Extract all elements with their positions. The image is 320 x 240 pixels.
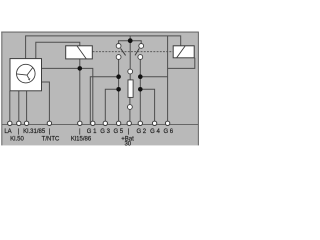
K1 diagonal — [77, 46, 86, 59]
wire: resistor bottom to lower circle to +Bat pin — [129, 97, 131, 123]
contact S1 lower-left fixed contact — [116, 55, 121, 60]
timer clock symbol circle — [17, 64, 36, 83]
wire: upper-right branch from D5 to G6 column — [140, 76, 167, 78]
junction dot D3 — [116, 74, 121, 79]
pin Kl15/86 — [78, 121, 82, 125]
svg-text:Kl.50: Kl.50 — [10, 136, 24, 142]
junction dot D6 — [138, 87, 143, 92]
svg-text:G 5: G 5 — [113, 129, 123, 135]
pin header line (inner box bottom edge) — [2, 124, 199, 126]
resistor bottom terminal circle — [127, 105, 132, 110]
clock hand upper-right — [27, 67, 33, 75]
pin G3 — [103, 121, 107, 125]
pin G5 — [116, 121, 120, 125]
wire: upper-left branch from D3 to bus — [90, 77, 118, 124]
contact blade left — [121, 48, 126, 55]
contact S1 upper-left fixed contact — [116, 44, 121, 49]
wire: timer right edge to D1 to corner, down to pin G1 — [42, 68, 93, 123]
wire: pin Kl.50 up to timer box — [18, 91, 20, 124]
dashed mechanical linkage line — [93, 51, 174, 53]
wire: timer right edge to T/NTC pin — [42, 82, 50, 123]
clock hand left — [17, 74, 27, 75]
wire: lower-left branch from D4 to pin G3 — [105, 89, 118, 123]
svg-text:30: 30 — [124, 142, 131, 148]
wire: center column from D2 down to resistor circle — [129, 41, 131, 72]
pin Kl.31/85 — [24, 121, 28, 125]
pin T/NTC — [47, 121, 51, 125]
pin +Bat/30 — [127, 121, 131, 125]
contact S1 lower-right fixed contact — [138, 55, 143, 60]
wire: contact top bar with bends to upper contacts — [119, 41, 142, 46]
junction dot D2 (contact common) — [128, 38, 133, 43]
resistor top terminal circle — [128, 69, 133, 74]
contact blade right — [135, 48, 139, 55]
housing border left — [1, 32, 3, 146]
svg-text:Kl.31/85: Kl.31/85 — [23, 129, 46, 135]
relay coil K2 (right box with diagonal) — [173, 46, 194, 58]
junction dot D1 — [78, 66, 83, 71]
housing border right — [197, 32, 199, 146]
wire: coil K1 bottom to junction D1 down to pin Kl15/86 — [79, 59, 81, 123]
junction dot D5 — [138, 74, 143, 79]
svg-text:T/NTC: T/NTC — [42, 136, 60, 142]
clock arrow lower-right — [27, 75, 29, 78]
pin G2 — [138, 121, 142, 125]
resistor R1 (series resistor) — [128, 80, 133, 98]
pin G1 — [91, 121, 95, 125]
svg-text:G 6: G 6 — [163, 129, 173, 135]
svg-text:G 3: G 3 — [100, 129, 110, 135]
timer control unit box U1 — [10, 59, 42, 91]
contact S1 upper-right fixed contact — [139, 44, 144, 49]
relay coil K1 (left box with diagonal) — [66, 46, 93, 59]
svg-text:G 1: G 1 — [87, 129, 97, 135]
wire: right contact column down to pin G2 — [139, 59, 141, 123]
wire: box2 bottom loop to G6 column — [168, 58, 195, 69]
pin G6 — [165, 121, 169, 125]
wire: pin Kl.31/85 up to timer box — [26, 91, 28, 124]
svg-text:G 2: G 2 — [136, 129, 146, 135]
wire: center column circle to resistor top — [129, 72, 131, 80]
wire: rail B (timer to relay coil K1) — [36, 42, 80, 58]
K2 diagonal — [177, 46, 186, 58]
svg-text:LA: LA — [4, 129, 11, 135]
wire: contact common stub from rail A to dot D2 — [129, 36, 131, 41]
svg-text:Kl15/86: Kl15/86 — [71, 136, 92, 142]
wire: lower-right branch from D6 to pin G4 — [140, 89, 154, 123]
housing border top — [1, 31, 198, 33]
pin G4 — [152, 121, 156, 125]
wire: left contact column down to pin G5 — [118, 59, 120, 123]
relay housing panel — [2, 32, 199, 145]
svg-text:G 4: G 4 — [150, 129, 160, 135]
wire: rail A drop at x=168 down to pin G6 — [167, 36, 169, 123]
wire: rail A (top supply rail) — [26, 36, 181, 59]
pin LA — [8, 121, 12, 125]
junction dot D4 — [116, 87, 121, 92]
pin Kl.50 — [17, 121, 21, 125]
wire: pin LA up to timer box — [9, 91, 11, 124]
